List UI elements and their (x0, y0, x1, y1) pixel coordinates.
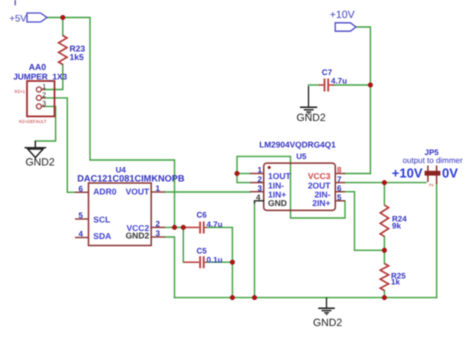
svg-text:GND2: GND2 (126, 231, 150, 241)
svg-text:2: 2 (156, 220, 161, 229)
svg-text:2IN+: 2IN+ (312, 198, 330, 208)
svg-text:SCL: SCL (93, 214, 110, 224)
svg-text:0V: 0V (442, 165, 458, 180)
svg-text:9k: 9k (392, 222, 401, 231)
svg-text:1: 1 (42, 84, 46, 91)
svg-text:5: 5 (79, 211, 84, 220)
svg-text:+10V: +10V (330, 9, 355, 21)
svg-text:3: 3 (156, 229, 161, 238)
svg-text:1k: 1k (391, 278, 400, 287)
svg-text:+10V: +10V (392, 165, 423, 180)
svg-text:6: 6 (337, 184, 342, 193)
svg-text:7: 7 (337, 175, 342, 184)
svg-text:0.1u: 0.1u (207, 256, 223, 265)
svg-text:2: 2 (429, 183, 435, 186)
svg-text:3: 3 (258, 184, 263, 193)
svg-text:4.7u: 4.7u (331, 77, 347, 86)
svg-text:ADR0: ADR0 (93, 187, 116, 197)
svg-text:GND2: GND2 (26, 157, 55, 169)
svg-text:C7: C7 (322, 68, 333, 77)
svg-text:5: 5 (337, 193, 342, 202)
svg-text:C5: C5 (197, 247, 208, 256)
svg-text:8: 8 (337, 166, 342, 175)
svg-text:C6: C6 (197, 211, 208, 220)
svg-text:4: 4 (79, 230, 84, 239)
svg-text:4.7u: 4.7u (207, 220, 223, 229)
svg-text:VOUT: VOUT (126, 187, 150, 197)
svg-text:3: 3 (42, 101, 46, 108)
svg-text:DAC121C081CIMKNOPB: DAC121C081CIMKNOPB (77, 173, 185, 183)
svg-text:2: 2 (42, 92, 46, 99)
svg-text:VCC3: VCC3 (308, 171, 331, 181)
svg-text:R2+DEFAULT: R2+DEFAULT (19, 119, 47, 124)
svg-text:R2+1: R2+1 (15, 89, 26, 94)
svg-text:GND2: GND2 (313, 317, 342, 329)
svg-text:U5: U5 (296, 152, 307, 161)
svg-text:1k5: 1k5 (70, 52, 84, 62)
svg-text:output to dimmer: output to dimmer (403, 156, 463, 165)
svg-text:+5V: +5V (9, 13, 27, 24)
svg-text:1: 1 (156, 184, 161, 193)
svg-text:6: 6 (79, 185, 84, 194)
svg-text:2: 2 (258, 175, 263, 184)
svg-text:1: 1 (258, 166, 263, 175)
svg-text:LM2904VQDRG4Q1: LM2904VQDRG4Q1 (259, 140, 336, 150)
svg-text:GND: GND (268, 198, 287, 208)
svg-text:GND2: GND2 (297, 112, 326, 124)
svg-text:SDA: SDA (93, 231, 111, 241)
svg-text:JUMPER_1X3: JUMPER_1X3 (13, 71, 67, 81)
svg-text:4: 4 (256, 193, 261, 202)
